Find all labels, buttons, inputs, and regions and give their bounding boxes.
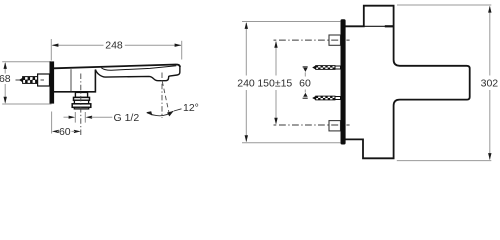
dim G 1/2 left arrow <box>64 116 71 118</box>
12 deg leader <box>174 109 182 111</box>
fitting bottom hatch <box>316 96 335 100</box>
outlet connector flare <box>72 104 91 108</box>
dim 302 arrow down <box>488 153 491 160</box>
12 deg arc <box>147 111 173 115</box>
screw centerline bottom <box>274 124 350 126</box>
spout body outline <box>54 70 96 92</box>
dim 60 arrow left <box>52 130 59 133</box>
outlet connector ring 1 <box>74 97 90 100</box>
dim G 1/2 leader <box>92 116 113 118</box>
dim 302 dimension line <box>489 7 491 76</box>
inlet union nut <box>38 74 50 86</box>
wall flange <box>50 61 55 103</box>
svg-text:240: 240 <box>237 78 255 90</box>
svg-text:60: 60 <box>59 126 71 138</box>
union nut centerline dash <box>41 79 45 81</box>
body joint line <box>70 69 72 91</box>
mounting screw top <box>329 35 341 45</box>
12 deg arc arrow left <box>146 111 152 115</box>
dim 150+-15 dimension line <box>275 42 277 76</box>
fitting top hatch <box>316 66 335 70</box>
dim 248 extension line left <box>50 39 52 61</box>
svg-text:G 1/2: G 1/2 <box>114 112 140 124</box>
spout tip and underside <box>95 66 179 81</box>
dim 240 extension line top <box>242 21 340 23</box>
dim 68 extension line bottom <box>2 103 51 105</box>
outlet connector neck <box>75 92 87 97</box>
dim 240 arrow down <box>245 135 248 142</box>
dim 60 right tick bottom <box>303 97 308 99</box>
threaded inlet tip <box>19 78 23 83</box>
fitting top tip <box>312 66 316 70</box>
dim 60 right arrow bottom <box>303 93 307 97</box>
svg-text:248: 248 <box>105 40 123 52</box>
outlet connector cap <box>74 107 88 109</box>
dim 150+-15 arrow up <box>274 41 277 48</box>
dim 302 extension line bottom <box>397 160 492 162</box>
mounting screw bottom <box>329 121 341 131</box>
dim 60 right connector top <box>304 72 306 76</box>
12 deg arc arrow right <box>167 111 174 117</box>
dim 240 arrow up <box>245 22 248 29</box>
dim 240 dimension line <box>245 23 247 76</box>
svg-text:12°: 12° <box>183 102 199 114</box>
svg-text:302: 302 <box>481 77 499 89</box>
dim 302 arrow up <box>488 6 491 13</box>
dim 68 dimension line <box>4 63 6 74</box>
dim 60 right arrow top <box>303 68 307 72</box>
body top joint line <box>364 25 385 27</box>
dim 60 line segments <box>57 130 58 132</box>
dim G 1/2 tick right <box>84 112 86 123</box>
svg-text:150±15: 150±15 <box>257 78 292 90</box>
dim 68 arrow up <box>4 62 7 69</box>
dim 248 arrow right <box>175 44 182 47</box>
spout top edge <box>54 64 180 68</box>
dim 68 arrow down <box>4 97 7 104</box>
fitting bottom end <box>335 97 341 100</box>
outlet mouth vertical centerline <box>161 73 163 119</box>
inlet centerline <box>16 79 49 81</box>
threaded inlet hatch <box>23 77 38 84</box>
dim 60 arrow right <box>74 130 81 133</box>
svg-text:60: 60 <box>299 78 311 90</box>
12 deg slanted jet line <box>162 82 170 117</box>
outlet vertical centerline <box>80 74 82 136</box>
dim 302 extension line top <box>397 4 491 6</box>
dim 248 dimension line <box>53 44 104 46</box>
dim 240 extension line bottom <box>242 142 340 144</box>
dim 248 arrow left <box>52 44 59 47</box>
wall bar <box>341 19 346 144</box>
body outline <box>346 6 470 159</box>
screw centerline top <box>274 39 350 41</box>
outlet connector ring 2 <box>74 100 88 104</box>
dim G 1/2 right arrow <box>86 116 93 119</box>
svg-text:68: 68 <box>0 73 11 85</box>
dim G 1/2 tick left <box>74 112 76 123</box>
dim 150+-15 arrow down <box>274 118 277 125</box>
dim 248 extension line right <box>181 41 183 60</box>
dim 68 extension line top <box>2 61 51 63</box>
fitting bottom tip <box>312 96 316 100</box>
spout second top line <box>101 66 176 70</box>
dim 60 right tick top <box>303 66 308 68</box>
dim 60 right connector bottom <box>304 90 306 93</box>
dim 60 extension line <box>51 112 53 134</box>
fitting top end <box>335 66 341 69</box>
